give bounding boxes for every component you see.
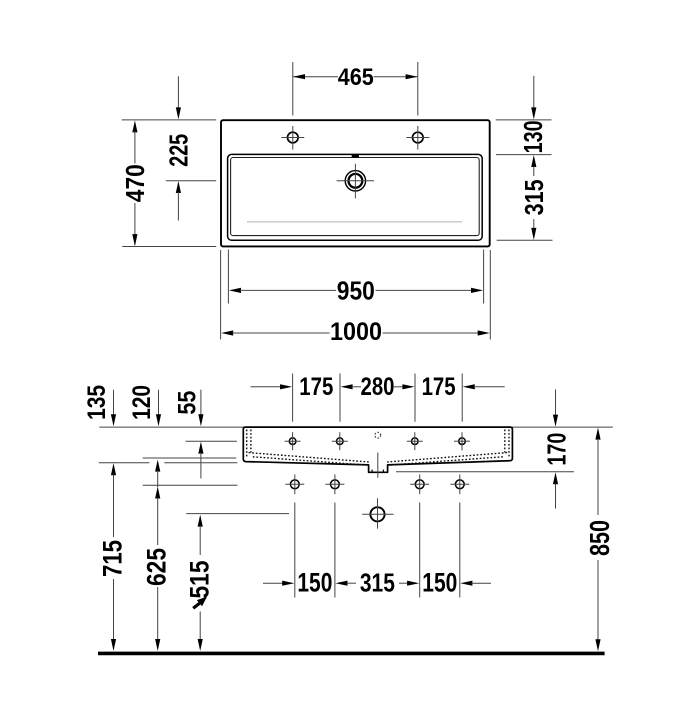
svg-text:280: 280 bbox=[361, 373, 395, 401]
svg-text:515: 515 bbox=[184, 561, 214, 599]
basin body outline (front) bbox=[243, 427, 512, 472]
svg-text:150: 150 bbox=[297, 568, 332, 598]
bottom reference line left (plan) bbox=[122, 246, 216, 248]
svg-text:55: 55 bbox=[173, 391, 201, 415]
svg-text:175: 175 bbox=[299, 373, 333, 401]
svg-text:470: 470 bbox=[120, 164, 150, 202]
bottom reference line right (plan) bbox=[497, 239, 553, 241]
svg-text:170: 170 bbox=[541, 433, 571, 466]
body bottom reference line (135) bbox=[99, 462, 150, 464]
dimension 625 (front) bbox=[142, 460, 172, 651]
deck tap hole 3 (front) bbox=[407, 432, 423, 450]
overflow slot tick (plan) bbox=[352, 155, 359, 158]
fixing hole 4 (front) bbox=[450, 474, 469, 494]
svg-text:315: 315 bbox=[360, 568, 395, 598]
basin bowl inner edge (plan) bbox=[231, 158, 480, 236]
svg-text:315: 315 bbox=[519, 179, 549, 215]
dimension 170 (front right) bbox=[541, 390, 571, 509]
svg-text:120: 120 bbox=[128, 385, 156, 420]
dimension 225 (plan, top to drain) bbox=[163, 76, 193, 220]
bowl top reference line right (plan) bbox=[496, 154, 552, 156]
svg-text:130: 130 bbox=[518, 120, 548, 153]
floor line bbox=[98, 652, 605, 656]
overflow dashed circle (front) bbox=[375, 432, 381, 438]
fixing hole 2 (front) bbox=[325, 474, 344, 494]
fixing hole 3 (front) bbox=[410, 474, 429, 494]
drain centreline tick (front) bbox=[377, 453, 379, 478]
fixing hole 1 (front) bbox=[285, 474, 304, 494]
drain box notches (front) bbox=[371, 470, 373, 473]
dimension 135 (front left) bbox=[83, 385, 116, 426]
basin bowl outer edge (plan) bbox=[228, 154, 483, 240]
dimension 55 (front left) bbox=[173, 390, 203, 479]
siphon drain (front) bbox=[362, 498, 393, 528]
tap hole reference line left (55) bbox=[186, 440, 237, 442]
svg-text:225: 225 bbox=[163, 134, 193, 167]
drain centre reference line (515) bbox=[186, 513, 289, 515]
svg-text:850: 850 bbox=[584, 520, 615, 556]
dimension 515 (front) bbox=[184, 515, 214, 651]
svg-text:625: 625 bbox=[142, 548, 172, 586]
svg-text:150: 150 bbox=[422, 568, 457, 598]
top reference line left (plan) bbox=[122, 119, 217, 121]
svg-text:175: 175 bbox=[422, 373, 456, 401]
deck tap hole 2 (front) bbox=[332, 432, 348, 450]
dimension 465 (plan, faucet spacing) bbox=[293, 62, 418, 116]
dimension 950 (plan bowl width) bbox=[228, 250, 483, 306]
bowl floor faint line bbox=[247, 221, 462, 223]
dimension 715 (front) bbox=[98, 463, 128, 651]
dimension 150/315/150 (front, fixing holes) bbox=[263, 503, 491, 598]
drain (plan) bbox=[337, 164, 374, 199]
svg-text:465: 465 bbox=[338, 64, 374, 91]
drain box bottom reference line (170) bbox=[396, 471, 574, 473]
dimension 850 (front right) bbox=[584, 428, 615, 652]
fixing holes reference line (625) bbox=[143, 484, 238, 486]
faucet hole left (plan) bbox=[281, 126, 304, 150]
svg-text:135: 135 bbox=[83, 385, 111, 420]
faucet hole right (plan) bbox=[406, 126, 429, 150]
svg-text:715: 715 bbox=[98, 540, 128, 577]
dimension 315 (plan, right) bbox=[519, 155, 549, 240]
inner bottom reference line (120) bbox=[143, 457, 237, 459]
bowl section dotted lines (front) bbox=[247, 430, 509, 466]
deck tap hole 4 (front) bbox=[454, 432, 470, 450]
dimension 1000 (plan overall width) bbox=[221, 250, 491, 346]
deck tap hole 1 (front) bbox=[285, 432, 301, 450]
svg-text:950: 950 bbox=[337, 275, 375, 305]
leader arrow to 515 text bbox=[193, 602, 201, 608]
dimension 120 (front left) bbox=[128, 385, 161, 426]
basin outer rim (plan) bbox=[221, 120, 490, 246]
svg-text:1000: 1000 bbox=[330, 318, 382, 346]
drain centre reference line (plan) bbox=[166, 180, 216, 182]
top reference line right (plan) bbox=[496, 119, 552, 121]
dimension 130 (plan, right) bbox=[518, 76, 548, 154]
top reference line (front) bbox=[99, 426, 613, 428]
dimension 470 (plan overall depth) bbox=[120, 120, 150, 246]
dimension 175/280/175 (front, tap holes) bbox=[251, 373, 505, 422]
